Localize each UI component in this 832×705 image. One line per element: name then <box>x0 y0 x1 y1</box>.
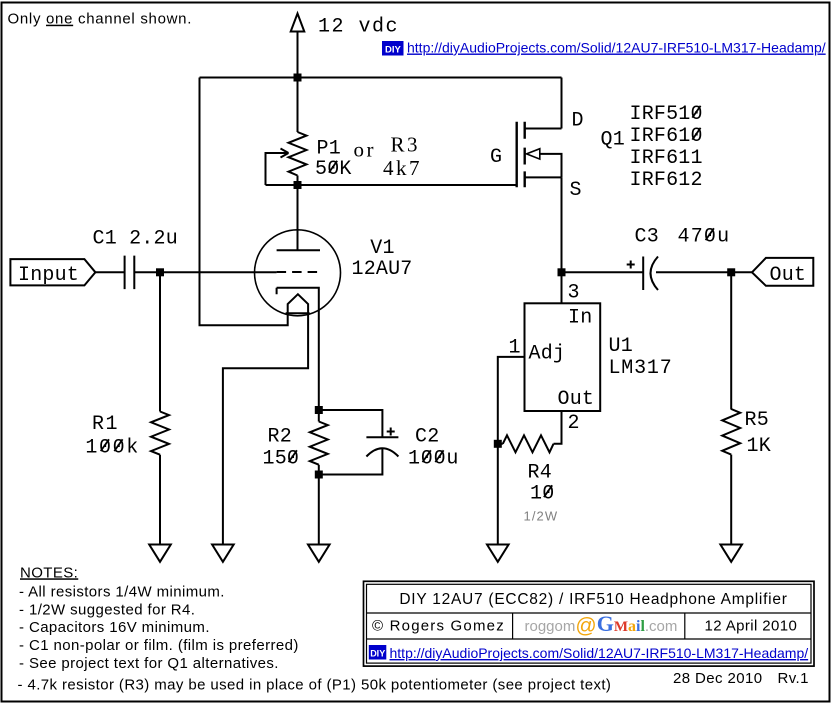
svg-text:50K: 50K <box>315 158 352 181</box>
svg-text:http://diyAudioProjects.com/So: http://diyAudioProjects.com/Solid/12AU7-… <box>390 645 809 661</box>
svg-text:R5: R5 <box>745 409 769 432</box>
svg-text:- All resistors 1/4W minimum.: - All resistors 1/4W minimum. <box>19 584 225 601</box>
title block <box>364 581 815 666</box>
wiper arrow <box>281 149 289 158</box>
svg-text:1/2W: 1/2W <box>524 509 559 524</box>
svg-text:In: In <box>568 307 592 330</box>
svg-text:- 1/2W suggested for R4.: - 1/2W suggested for R4. <box>19 601 195 618</box>
svg-text:IRF611: IRF611 <box>630 147 703 170</box>
wire C2 bottom to R2 <box>319 449 383 475</box>
wire input to C1 <box>95 271 124 273</box>
label D G S Q1 <box>490 110 625 203</box>
svg-text:- See project text for Q1 alte: - See project text for Q1 alternatives. <box>19 655 279 672</box>
svg-text:100u: 100u <box>408 448 459 471</box>
junction P1 bottom <box>294 181 302 189</box>
label or R3 4k7 <box>354 133 423 181</box>
ground R1 <box>149 545 171 562</box>
svg-text:C3: C3 <box>635 226 659 249</box>
grid dashed <box>277 271 320 273</box>
svg-text:12 April 2010: 12 April 2010 <box>705 618 798 635</box>
wire heater right to ground <box>223 313 308 544</box>
terminal Input <box>10 259 95 287</box>
svg-text:Out: Out <box>770 264 807 287</box>
heater <box>288 294 308 313</box>
tube V1 12AU7 <box>255 230 341 410</box>
junction R2 top <box>315 406 323 414</box>
svg-text:100k: 100k <box>85 437 139 460</box>
svg-text:IRF610: IRF610 <box>630 125 703 148</box>
svg-text:2: 2 <box>568 412 580 435</box>
label R5 1K <box>745 409 771 458</box>
capacitor C1 <box>125 256 135 290</box>
label IRF510 IRF610 IRF611 IRF612 <box>630 103 703 192</box>
power supply +12V arrow <box>291 14 305 32</box>
svg-text:470u: 470u <box>678 226 731 249</box>
svg-text:3: 3 <box>568 282 580 305</box>
wire P1 to V1 plate <box>297 176 299 251</box>
svg-text:D: D <box>572 110 584 133</box>
svg-text:- C1 non-polar or film. (film: - C1 non-polar or film. (film is preferr… <box>19 637 299 654</box>
resistor R4 <box>498 435 554 452</box>
svg-text:G: G <box>490 146 502 169</box>
link top url <box>382 40 826 56</box>
resistor R5 <box>722 272 740 544</box>
label P1 50K <box>315 138 352 182</box>
wire source node to C3 <box>562 271 644 273</box>
svg-text:http://diyAudioProjects.com/So: http://diyAudioProjects.com/Solid/12AU7-… <box>407 40 826 56</box>
svg-text:R4: R4 <box>528 462 552 485</box>
resistor R1 <box>151 272 169 544</box>
notes <box>18 564 612 693</box>
svg-text:C1 2.2u: C1 2.2u <box>93 228 178 251</box>
svg-text:1K: 1K <box>747 435 771 458</box>
svg-text:DIY 12AU7 (ECC82) / IRF510 Hea: DIY 12AU7 (ECC82) / IRF510 Headphone Amp… <box>399 591 787 608</box>
ground R4 <box>487 545 509 562</box>
wire source down to output node <box>561 177 563 272</box>
svg-text:or: or <box>354 138 377 162</box>
svg-text:IRF510: IRF510 <box>630 103 703 126</box>
svg-text:- Capacitors 16V minimum.: - Capacitors 16V minimum. <box>19 619 210 636</box>
svg-text:IRF612: IRF612 <box>630 169 703 192</box>
wire gate net P1 bottom to Q1 gate <box>298 184 517 186</box>
wire R2 to C2 top <box>319 410 383 437</box>
svg-text:Rv.1: Rv.1 <box>778 670 809 687</box>
wire source node to LM317 In <box>561 272 563 303</box>
wire Adj to ground <box>498 357 525 545</box>
svg-text:Input: Input <box>18 264 79 287</box>
label R1 100k <box>85 413 139 460</box>
svg-text:150: 150 <box>263 448 300 471</box>
svg-text:Adj: Adj <box>529 343 566 366</box>
ground R5 <box>720 545 742 562</box>
wire C1 to grid node <box>134 271 276 273</box>
svg-text:R3: R3 <box>391 133 421 157</box>
plate <box>277 249 320 251</box>
wire rail left to heater <box>200 78 288 326</box>
svg-text:U1: U1 <box>609 335 633 358</box>
svg-text:S: S <box>570 179 582 202</box>
svg-text:V1: V1 <box>370 237 394 260</box>
svg-text:R1: R1 <box>92 413 119 436</box>
label V1 12AU7 <box>352 237 413 281</box>
wire C3 to Out <box>656 271 752 273</box>
svg-text:Out: Out <box>558 388 595 411</box>
label C3 470u <box>635 226 731 249</box>
label R4 10 1/2W <box>524 462 559 524</box>
svg-text:12 vdc: 12 vdc <box>318 16 399 39</box>
svg-text:12AU7: 12AU7 <box>352 258 413 281</box>
junction 12V rail <box>294 74 302 82</box>
wire rail to drain <box>561 78 563 129</box>
op-amp U1 LM317 <box>525 303 601 411</box>
link title url <box>369 645 387 660</box>
wire LM317 Out pin down <box>554 411 562 444</box>
resistor R2 <box>310 410 328 545</box>
ground R2 <box>308 545 330 562</box>
svg-text:LM317: LM317 <box>609 357 673 380</box>
svg-text:DIY: DIY <box>370 648 385 658</box>
svg-text:R2: R2 <box>268 426 292 449</box>
capacitor C3 <box>627 257 658 291</box>
wire wiper loop <box>266 153 298 185</box>
note: only one channel shown <box>8 11 193 28</box>
transistor Q1 MOSFET <box>517 122 562 188</box>
junction out node <box>727 268 735 276</box>
svg-text:C2: C2 <box>415 426 439 449</box>
cathode <box>277 288 319 410</box>
ground heater <box>212 545 234 562</box>
svg-text:- 4.7k resistor (R3) may be us: - 4.7k resistor (R3) may be used in plac… <box>18 676 612 693</box>
potentiometer P1 <box>281 132 307 176</box>
junction Adj node <box>494 440 502 448</box>
label R2 150 <box>263 426 300 471</box>
junction source node <box>558 268 566 276</box>
label C2 100u <box>408 426 459 471</box>
wire top rail <box>200 77 562 79</box>
junction R2 bottom <box>315 471 323 479</box>
label U1 LM317 <box>609 335 673 380</box>
svg-text:NOTES:: NOTES: <box>20 564 78 581</box>
svg-text:© Rogers Gomez: © Rogers Gomez <box>372 618 505 635</box>
wire 12vdc vertical to P1 top <box>297 32 299 133</box>
junction input node <box>156 268 164 276</box>
svg-text:4k7: 4k7 <box>383 156 422 180</box>
terminal Out <box>752 258 813 287</box>
capacitor C2 <box>366 428 398 457</box>
svg-text:28 Dec 2010: 28 Dec 2010 <box>673 670 762 687</box>
svg-text:DIY: DIY <box>385 44 402 55</box>
svg-text:Only one channel shown.: Only one channel shown. <box>8 11 193 28</box>
svg-text:Q1: Q1 <box>601 129 625 152</box>
